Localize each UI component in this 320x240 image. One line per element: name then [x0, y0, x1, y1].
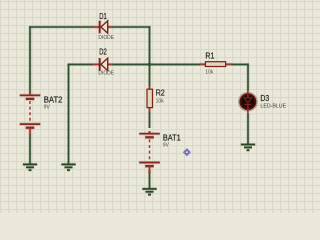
wire BAT2 bottom to ground [28, 134, 31, 164]
svg-text:R1: R1 [205, 50, 214, 60]
diode D1 [93, 21, 113, 34]
ground symbol (D2 anode net) [61, 164, 75, 170]
svg-text:BAT2: BAT2 [44, 94, 63, 104]
wire R1 right lead to corner x=248 [231, 63, 248, 66]
wire corner x=248 down to D3 [246, 64, 249, 91]
resistor R2 [147, 86, 153, 113]
svg-text:DIODE: DIODE [98, 71, 114, 77]
wire D3 cathode down to ground [246, 114, 249, 144]
junction dot at (149.5,64.4) [148, 63, 151, 66]
LED D3 [239, 90, 256, 113]
wire top net BAT2 to D1 anode [29, 25, 93, 28]
ground symbol (BAT1 net) [142, 189, 156, 195]
svg-text:10k: 10k [205, 70, 213, 76]
svg-text:DIODE: DIODE [98, 35, 114, 41]
wire junction down to R2 [148, 64, 151, 86]
svg-text:9V: 9V [163, 143, 169, 149]
svg-text:9V: 9V [44, 104, 50, 110]
svg-text:BAT1: BAT1 [163, 133, 181, 143]
wire BAT1 bottom to ground [148, 171, 151, 189]
origin marker [184, 149, 191, 156]
svg-text:LED-BLUE: LED-BLUE [260, 104, 286, 110]
wire x=68.5 down to ground [67, 64, 70, 164]
battery BAT1 [139, 131, 160, 173]
diode D2 [93, 58, 113, 71]
wire BAT2 positive vertical x=30 [28, 26, 31, 93]
svg-text:D3: D3 [260, 93, 269, 103]
ground symbol (BAT2 net) [23, 164, 37, 170]
wire D1 cathode to corner [112, 25, 150, 28]
svg-text:D2: D2 [99, 46, 107, 56]
svg-text:R2: R2 [156, 87, 165, 97]
ground symbol (D3 cathode net) [241, 145, 255, 151]
svg-text:10k: 10k [156, 98, 164, 104]
wire corner x=149.5 down to junction [148, 26, 151, 64]
wire R2 bottom to BAT1 top [148, 112, 151, 128]
wire D2 cathode through junction to R1 [112, 63, 200, 66]
battery BAT2 [20, 93, 41, 135]
svg-text:D1: D1 [99, 11, 107, 21]
wire D2 anode left to corner x=68.5 [68, 63, 93, 66]
resistor R1 [200, 62, 232, 67]
